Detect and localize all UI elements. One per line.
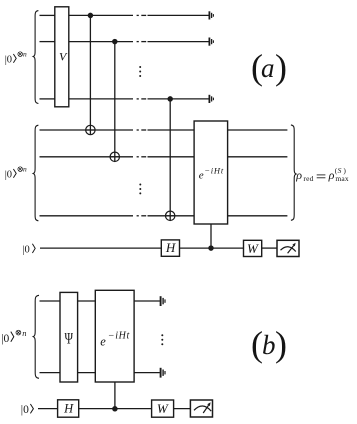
svg-text:|0: |0 xyxy=(22,244,29,255)
svg-text:red: red xyxy=(303,174,313,183)
discard symbol b qn xyxy=(161,368,165,378)
wire reg1 qubitn xyxy=(40,98,209,100)
wire controlled-eiHt vertical b xyxy=(114,382,116,409)
meter icon a xyxy=(281,243,296,253)
wire reg2 qubitn xyxy=(40,215,288,217)
wire controlled-eiHt vertical a xyxy=(210,224,212,248)
svg-text:|0: |0 xyxy=(1,333,9,345)
meter icon b xyxy=(194,402,211,413)
brace register b left xyxy=(33,295,39,378)
svg-text:a: a xyxy=(261,53,275,83)
gate Psi box xyxy=(60,292,78,382)
label rho red xyxy=(295,166,349,183)
gate H box a xyxy=(161,240,179,256)
svg-text:e: e xyxy=(100,334,106,348)
CNOT target 1 xyxy=(86,125,95,134)
gate W box a xyxy=(244,240,262,256)
wire CNOT3 vertical xyxy=(169,99,171,221)
control dot q1 xyxy=(88,13,92,17)
discard symbol qn xyxy=(209,95,213,103)
wire reg1 qubit2 xyxy=(40,41,209,43)
svg-text:Ψ: Ψ xyxy=(65,331,74,348)
label gate e-iHt b xyxy=(100,331,130,349)
gate W box b xyxy=(152,400,174,417)
svg-text:max: max xyxy=(335,174,348,183)
svg-text:H: H xyxy=(63,401,74,415)
svg-text:ρ: ρ xyxy=(295,168,302,182)
svg-text:): ) xyxy=(275,324,287,364)
wire reg1 qubit1 xyxy=(40,14,209,16)
meter box a xyxy=(277,240,299,256)
svg-text:W: W xyxy=(247,241,259,256)
gate e-iHt box b xyxy=(95,290,134,382)
brace reg2 right xyxy=(291,125,296,220)
svg-text:S: S xyxy=(338,166,342,175)
svg-text:|0: |0 xyxy=(5,169,12,180)
label ket0 ancilla a xyxy=(22,244,35,256)
control dot ancilla a xyxy=(209,246,213,250)
svg-text:e: e xyxy=(199,170,204,182)
label subfigure b xyxy=(251,324,287,364)
wire reg2 qubit1 xyxy=(40,129,288,131)
wire ancilla b xyxy=(38,408,190,410)
label ket0n register1 xyxy=(5,50,27,66)
gate H box b xyxy=(58,400,79,417)
wire CNOT1 vertical xyxy=(89,15,91,134)
label ket0 ancilla b xyxy=(21,404,34,416)
svg-text:n: n xyxy=(23,165,27,174)
svg-text:b: b xyxy=(262,330,276,360)
svg-text:H: H xyxy=(165,240,176,255)
svg-text:n: n xyxy=(23,50,27,59)
svg-text:W: W xyxy=(157,401,169,416)
label ket0n register2 xyxy=(5,165,27,181)
CNOT target 2 xyxy=(110,152,119,161)
brace register1 left xyxy=(33,11,38,104)
wire b qubit1 xyxy=(40,300,160,302)
wire reg2 qubit2 xyxy=(40,156,288,158)
ellipsis register1 xyxy=(139,66,141,77)
label subfigure a xyxy=(251,47,287,87)
wire CNOT2 vertical xyxy=(114,42,116,162)
discard symbol q1 xyxy=(209,11,213,19)
svg-text:): ) xyxy=(275,47,287,87)
svg-text:|0: |0 xyxy=(21,404,29,416)
label gate e-iHt a xyxy=(199,165,224,181)
svg-text:n: n xyxy=(22,328,26,338)
svg-text:|0: |0 xyxy=(5,54,12,65)
svg-text:ρ: ρ xyxy=(328,168,335,182)
control dot qn xyxy=(168,97,172,101)
svg-text:−iHt: −iHt xyxy=(204,165,224,175)
discard symbol q2 xyxy=(209,38,213,46)
gate V box U1 xyxy=(55,7,69,107)
brace register2 left xyxy=(33,125,38,221)
svg-text:−iHt: −iHt xyxy=(108,331,130,342)
CNOT target 3 xyxy=(166,211,175,220)
ellipsis b right xyxy=(161,334,163,345)
control dot ancilla b xyxy=(113,407,117,411)
wire ancilla a xyxy=(40,247,277,249)
gate e-iHt box a xyxy=(194,121,228,224)
ellipsis register2 xyxy=(139,184,141,195)
label ket0n register b xyxy=(1,328,26,345)
meter box b xyxy=(190,400,212,417)
discard symbol b q1 xyxy=(161,296,165,306)
wire b qubitn xyxy=(40,372,160,374)
control dot q2 xyxy=(113,40,117,44)
